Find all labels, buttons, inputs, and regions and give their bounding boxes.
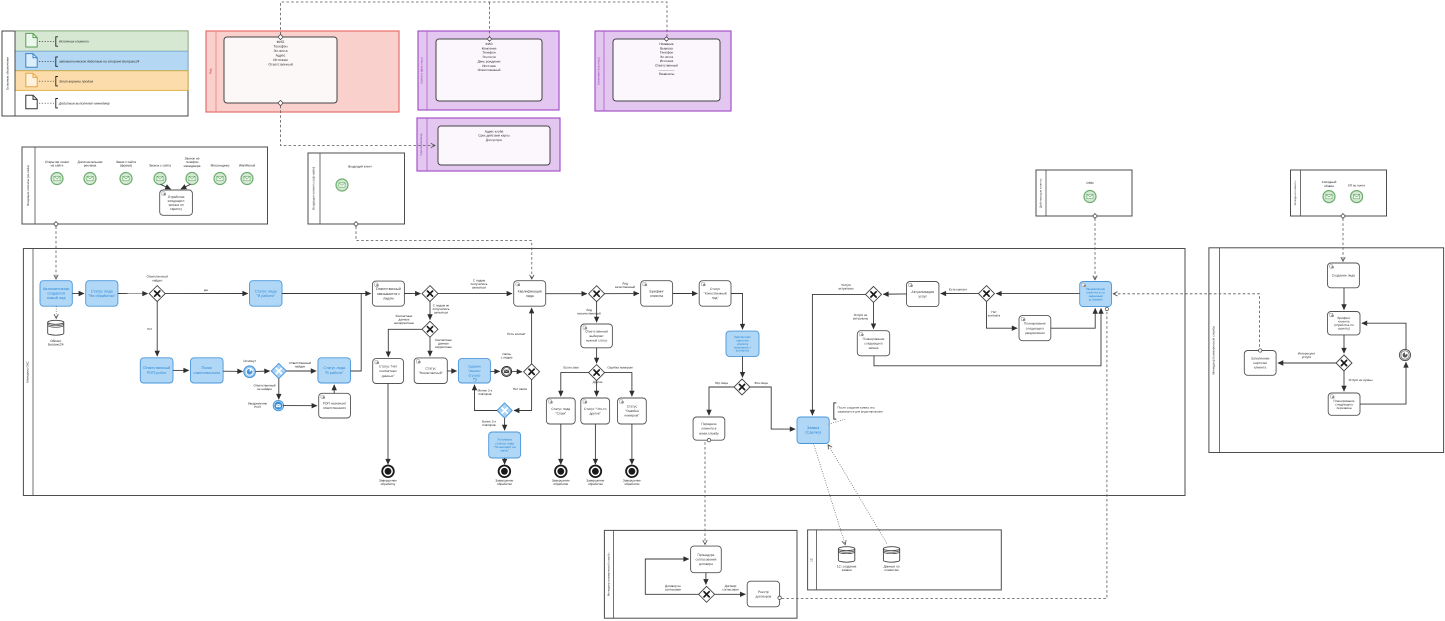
- svg-text:РОП назначаетответственного: РОП назначаетответственного: [323, 401, 347, 410]
- task: Поиск ответственного: [191, 358, 224, 383]
- wire: dashed Заполнение карточки -&gt; Уведомление клиента: [1114, 294, 1260, 347]
- task: Статус Нет контактных данных: [373, 359, 404, 384]
- legend row 4: Действие выполняет менеджер: [26, 95, 110, 109]
- svg-text:Есть контакт: Есть контакт: [507, 332, 526, 336]
- end event: Завершение обработки 3: [555, 466, 567, 478]
- start event: Звонок на телефон менеджера: [186, 173, 198, 185]
- wire: Установка статуса-&gt;конец: [504, 458, 506, 464]
- wire: G6-&gt;Статус В работе (2): [286, 370, 316, 372]
- wire: G11-&gt;Заявка Физ.лица: [750, 387, 795, 429]
- wire: Статус Что-то другое-&gt;конец: [594, 424, 596, 464]
- svg-text:Брифингклиента: Брифингклиента: [650, 289, 665, 298]
- svg-text:ОтветственныйРОП-робот: ОтветственныйРОП-робот: [143, 366, 170, 375]
- node: Действующие клиенты pool bottom diamond: [1093, 214, 1098, 219]
- task: Статус Неконтактный: [414, 358, 447, 384]
- svg-text:Компания (юр.лицо): Компания (юр.лицо): [597, 57, 601, 85]
- svg-text:Контакт (физ.лицо): Контакт (физ.лицо): [420, 57, 424, 84]
- svg-text:Действие выполняет менеджер: Действие выполняет менеджер: [58, 101, 110, 105]
- label: Звонок с сайта: [149, 164, 171, 168]
- svg-text:Физ.лица: Физ.лица: [754, 381, 768, 385]
- label: Нет связи: [513, 387, 527, 391]
- label: Дополнительная: [78, 160, 103, 168]
- node: Компания top connector diamond: [664, 37, 668, 41]
- end event: Завершение обработки 2: [499, 466, 511, 478]
- start event: Открытая линия на сайте: [51, 173, 63, 185]
- label: Услуги актуальны: [838, 283, 854, 291]
- label: Завершение обработки 2: [495, 478, 513, 486]
- task: Заполнение карточки клиента (компания + контакты): [726, 331, 759, 356]
- wire: dashed link Лид bottom to Сделка: [281, 106, 435, 146]
- timer event: 10 минут: [244, 366, 256, 378]
- svg-text:Задание"Звонок"(3 раза): Задание"Звонок"(3 раза): [468, 364, 482, 377]
- label: Физ.лица: [754, 381, 768, 385]
- wire: dotted Данные по клиентам -&gt; Заявка: [828, 445, 887, 544]
- svg-text:Холодные клиенты: Холодные клиенты: [1293, 181, 1297, 206]
- svg-text:Звонок нателефонменеджера: Звонок нателефонменеджера: [184, 157, 201, 168]
- wire: Ответственный связывается-&gt;G2: [404, 293, 420, 295]
- wire: РОП-робот-&gt;Поиск: [173, 369, 189, 371]
- end event: Завершение обработки 1: [382, 466, 394, 478]
- pool: Менеджер Коммерческой службы: [1209, 248, 1444, 453]
- legend row 1: Источник клиента: [26, 33, 89, 47]
- svg-text:Статус лида"В работе": Статус лида"В работе": [255, 289, 278, 298]
- svg-text:Завершениеобработки: Завершениеобработки: [586, 478, 604, 486]
- gateway: качество лида?: [589, 286, 605, 302]
- wire: Планирование уведомления-&gt;Уведомление клиента: [1051, 309, 1095, 329]
- wire: таймер-&gt;Брифинг loop: [1362, 323, 1406, 350]
- end event: Завершение обработки 5: [626, 466, 638, 478]
- svg-text:Договор несогласован: Договор несогласован: [665, 584, 682, 592]
- svg-text:DRM: DRM: [1086, 181, 1093, 185]
- label: Ошибка номером: [607, 365, 632, 369]
- wire: G5-&gt;Планирование уведомления Нет контакта: [987, 301, 1018, 328]
- svg-text:Услуги неактуальны: Услуги неактуальны: [853, 313, 869, 321]
- pool: Менеджер ОКС: [23, 249, 1185, 496]
- task: Брифинг клиента: [641, 281, 673, 307]
- wire: Звонок с сайта -&gt; Отработка: [161, 184, 171, 189]
- annotation: После создания заявка она закрывается для редактирования: [834, 403, 883, 419]
- svg-text:Юр.лица: Юр.лица: [715, 381, 728, 385]
- label: С лидом не получилось связаться: [433, 304, 450, 315]
- wire: dashed DRM -&gt; Уведомление клиента: [1094, 219, 1096, 280]
- label: Связь с лидом: [501, 352, 513, 360]
- timer event: перезвон: [1399, 349, 1410, 360]
- task: Актуализация услуг: [907, 282, 939, 307]
- svg-text:Нет связи: Нет связи: [513, 387, 527, 391]
- legend row 2: автоматическое действие на стороне Битрикс24: [26, 54, 140, 68]
- svg-text:Менеджер ОКС: Менеджер ОКС: [26, 360, 30, 382]
- wire: Заполнение карточки-&gt;G11: [742, 356, 744, 377]
- svg-text:Этап воронки продаж: Этап воронки продаж: [59, 79, 94, 83]
- wire: G7-&gt;Квалификация Есть контакт: [531, 308, 533, 364]
- svg-text:Да: Да: [204, 288, 208, 292]
- label: Завершение обработки 4: [586, 478, 604, 486]
- wire: G4-&gt;Планирование звонка Услуги не актуальны: [873, 302, 875, 329]
- legend row 3: Этап воронки продаж: [26, 73, 94, 87]
- svg-text:Входящие клиенты (он-лайн): Входящие клиенты (он-лайн): [26, 165, 30, 206]
- gateway: интересуют услуги?: [1336, 355, 1352, 371]
- label: Юр.лица: [715, 381, 728, 385]
- wire: dashed offline pool -&gt; Квалификация: [356, 227, 532, 279]
- svg-text:Если спам: Если спам: [563, 365, 578, 369]
- label: Услуги не нужны: [1349, 378, 1374, 382]
- task: Статус лида В работе (1): [250, 281, 283, 307]
- gateway: есть контакт после звонка?: [524, 364, 540, 380]
- pool: Входящие клиенты (оф-лайн): [308, 153, 405, 224]
- svg-text:Ошибка номером: Ошибка номером: [607, 365, 632, 369]
- task: Автоматически создается новый лид: [40, 281, 72, 307]
- database: 1С создание заявки: [837, 547, 857, 572]
- svg-text:Отработкавходящегозвонка поскр: Отработкавходящегозвонка поскрипту: [168, 195, 185, 211]
- gateway: договор согласован?: [699, 586, 715, 602]
- wire: G13-&gt;Реестр Договор согласован: [715, 593, 746, 595]
- start event: Звонок с сайта: [154, 173, 166, 185]
- wire: Статус Ошибка номером-&gt;конец: [631, 424, 633, 464]
- label: Контактные данные корректные: [435, 338, 452, 349]
- task: Заполнение карточки клиента (правый пул): [1244, 349, 1276, 376]
- wire: G11-&gt;Передача Юр.лица: [709, 387, 734, 415]
- start event: Входящий клент: [336, 179, 348, 191]
- label: DRM: [1086, 181, 1093, 185]
- wire: T1-&gt;T2: [72, 293, 84, 295]
- label: Более 3-х повторов: [482, 419, 497, 427]
- wire: Связь с лидом-&gt;G7: [512, 370, 522, 372]
- task: Заявка (Сделка): [797, 417, 829, 444]
- wire: dashed online pool -&gt; Автоматически создается: [55, 227, 57, 279]
- wire: dashed entity link Лид-Контакт-Компания top: [281, 2, 668, 37]
- wire: G3-&gt;Брифинг Лид качественный: [605, 293, 639, 295]
- task: Статус лида Спам: [546, 398, 575, 424]
- node: Холодные клиенты pool bottom diamond: [1341, 214, 1346, 219]
- database: Облако Битрикс24: [48, 320, 64, 346]
- node: Лид bottom connector diamond: [278, 100, 283, 105]
- svg-text:Другое: Другое: [593, 380, 603, 384]
- wire: Уведомление РОП-&gt;РОП назначает: [283, 405, 317, 407]
- node: online pool bottom diamond: [54, 222, 59, 227]
- task: Процедура согласования договора: [691, 546, 722, 573]
- wire: Статус Неконтактный-&gt;Задание Звонок: [447, 370, 456, 372]
- wire: Планирование перезвона-&gt;таймер: [1360, 362, 1406, 404]
- label: Ответственный не найден: [253, 384, 275, 392]
- wire: G7-&gt;G8 Нет связи: [514, 380, 532, 411]
- wire: G10-&gt;Статус Ошибка номером: [605, 373, 632, 397]
- message event: Связь с лидом: [502, 366, 512, 376]
- label: Менее 3-х повторов: [478, 389, 493, 397]
- label: Контактные данные некорректные: [394, 314, 414, 325]
- svg-text:Мессенджер: Мессенджер: [211, 164, 230, 168]
- gateway: есть контакт?: [979, 286, 995, 302]
- task: Установка статуса лида Не выходит на связь: [489, 432, 521, 458]
- wire: annotation association: [829, 419, 846, 424]
- svg-text:Завершениеобработки: Завершениеобработки: [552, 478, 570, 486]
- label: КП по почте: [1348, 184, 1365, 188]
- svg-text:Нет: Нет: [147, 327, 153, 331]
- task: Ответственный РОП-робот: [140, 358, 173, 383]
- pool: Входящие клиенты (он-лайн): [22, 147, 268, 224]
- task: Уведомление клиента в по заданным условиям: [1080, 282, 1112, 307]
- label: Другое: [593, 380, 603, 384]
- wire: Поиск-&gt;таймер: [223, 370, 243, 372]
- label: Завершение обработки 1: [379, 478, 397, 486]
- pool: Действующие клиенты: [1036, 170, 1132, 216]
- wire: G8-&gt;Установка статуса Более 3-х: [504, 418, 506, 430]
- svg-text:Звонок с сайта: Звонок с сайта: [149, 164, 171, 168]
- entity pool: Сделка(Заявка): [417, 118, 560, 171]
- gateway: число повторов?: [497, 403, 512, 418]
- svg-text:Сделка(Заявка): Сделка(Заявка): [419, 133, 423, 155]
- label: Звонок на: [184, 157, 201, 168]
- svg-text:Основные обозначения: Основные обозначения: [6, 57, 10, 90]
- wire: G10-&gt;Статус Спам: [561, 373, 589, 397]
- wire: G6-&gt;Уведомление РОП: [278, 379, 280, 400]
- wire: Звонок на телефон менеджера -&gt; Отработка: [181, 184, 191, 189]
- wire: Задание Звонок-&gt;Связь с лидом: [490, 370, 499, 372]
- wire: Создание лида-&gt;Брифинг: [1343, 288, 1345, 310]
- label: Есть контакт (квалификация): [507, 332, 526, 336]
- message event: Уведомление РОП: [273, 400, 283, 410]
- wire: G12-&gt;Заполнение карточки Интересуют услуги: [1278, 362, 1336, 364]
- svg-text:С лидом неполучилосьсвязаться: С лидом неполучилосьсвязаться: [433, 304, 450, 315]
- wire: Уведомление клиента-&gt;G5: [996, 293, 1079, 295]
- wire: T3-&gt;Ответственный связывается: [282, 293, 371, 295]
- wire: G9-&gt;Статус Неконтактный: [429, 337, 431, 356]
- task: Статус Ошибка номером: [618, 398, 647, 424]
- task: Брифинг клиента (отработка по скрипту): [1328, 312, 1361, 335]
- task: Планирование следующего перезвона: [1328, 393, 1360, 415]
- wire: Статус Нет контактных данных-&gt;конец: [387, 384, 389, 465]
- wire: G5-&gt;Актуализация Есть контакт: [941, 293, 979, 295]
- gateway: ответственный найден после поиска?: [271, 363, 286, 378]
- label: Мессенджер: [211, 164, 230, 168]
- database: Данные по клиентам: [883, 547, 899, 572]
- pool: 1С: [808, 530, 1002, 590]
- wire: G4-&gt;Заявка Услуги актуальны: [812, 294, 865, 415]
- svg-text:Входящие клиенты (оф-лайн): Входящие клиенты (оф-лайн): [311, 167, 315, 210]
- svg-text:Завершениеобработку: Завершениеобработку: [379, 478, 397, 486]
- task: Создание лида: [1328, 263, 1360, 288]
- node: Контакт top connector diamond: [487, 37, 491, 41]
- svg-text:Менеджер Коммерческой службы: Менеджер Коммерческой службы: [1212, 325, 1216, 374]
- label: Входящий клент: [348, 165, 372, 169]
- label: Нет: [147, 327, 153, 331]
- wire: Статус Спам-&gt;конец: [560, 424, 562, 464]
- svg-text:КП по почте: КП по почте: [1348, 184, 1365, 188]
- svg-text:Связьс лидом: Связьс лидом: [501, 352, 513, 360]
- wire: G2-&gt;Квалификация: [438, 293, 512, 295]
- svg-text:Статус лида"Не обработан": Статус лида"Не обработан": [88, 289, 116, 298]
- svg-text:Передачаклиента вкомм.службу: Передачаклиента вкомм.службу: [699, 422, 719, 435]
- task: Планирование следующего звонка: [857, 331, 889, 356]
- label: Услуги не актуальны: [853, 313, 869, 321]
- label: Интересуют услуги: [1298, 352, 1316, 360]
- label: Уведомление РОП: [248, 402, 268, 410]
- wire: G1-&gt;РОП-робот Нет: [156, 301, 158, 356]
- svg-text:WantResult: WantResult: [239, 164, 255, 168]
- start event: DRM: [1084, 191, 1096, 203]
- svg-text:Менее 3-хповторов: Менее 3-хповторов: [478, 389, 493, 397]
- entity pool: Компания (юр.лицо): [595, 31, 731, 111]
- wire: dotted Автоматически создается -&gt; Облако Битрикс24: [55, 306, 57, 318]
- label: Договор согласован: [722, 584, 739, 592]
- label: Завершение обработки 5: [623, 478, 641, 486]
- end event: Завершение обработки 4: [590, 466, 602, 478]
- pool: Менеджер коммерческой службы (договор): [604, 530, 797, 618]
- legend: Основные обозначения box: [2, 31, 188, 116]
- label: Да: [204, 288, 208, 292]
- task: Ответственный связывается с лидом: [372, 281, 404, 306]
- wire: G8-&gt;Задание Звонок Менее 3-х: [475, 385, 498, 411]
- gateway: юр или физ лицо?: [734, 379, 750, 395]
- wire: Процедура-&gt;G13: [705, 573, 707, 585]
- pool: Холодные клиенты: [1291, 170, 1387, 216]
- wire: G3-&gt;Ответственный выбирает Лид некачественный: [596, 302, 598, 323]
- svg-text:Завершениеобработки: Завершениеобработки: [623, 478, 641, 486]
- task: Статус Качественный лид: [699, 281, 731, 307]
- wire: dashed Холодные -&gt; Создание лида: [1342, 219, 1344, 262]
- task: Отработка входящего звонка по скрипту: [160, 190, 193, 215]
- label: Ответственный найден: [146, 275, 168, 283]
- svg-text:Статус лида"В работе": Статус лида"В работе": [323, 366, 346, 375]
- wire: G10-&gt;Статус Что-то другое: [596, 381, 598, 397]
- label: Заказ с сайта: [116, 160, 136, 168]
- wire: Планирование звонка-&gt;Уведомление клиента loop: [874, 309, 1101, 366]
- entity pool: Лид: [206, 31, 399, 112]
- wire: Ответственный выбирает-&gt;G10: [596, 348, 598, 363]
- wire: dashed Реестр договоров -&gt; Уведомление клиента: [782, 307, 1109, 598]
- gateway: связь с лидом?: [422, 286, 438, 302]
- label: Лид качественный: [615, 282, 635, 290]
- svg-text:Создание лида: Создание лида: [1332, 274, 1355, 278]
- svg-text:Есть контакт: Есть контакт: [949, 287, 968, 291]
- wire: T2-&gt;G1: [118, 293, 148, 295]
- start event: Мессенджер: [214, 173, 226, 185]
- task: Ответственный выбирает нужный статус: [581, 324, 613, 348]
- start event: КП по почте: [1351, 191, 1363, 203]
- label: Есть контакт (актуализация): [949, 287, 968, 291]
- wire: dashed Передача клиента -&gt; Процедура согласования: [704, 442, 706, 544]
- label: Если спам: [563, 365, 578, 369]
- task: Задание Звонок (3 раза): [458, 359, 490, 383]
- wire: Квалификация-&gt;G3: [546, 293, 587, 295]
- task: Планирование следующего уведомления: [1019, 316, 1051, 341]
- label: С лидом получилось связаться: [471, 279, 488, 290]
- gateway: Ответственный найден?: [149, 286, 165, 302]
- svg-text:Лид: Лид: [208, 68, 212, 74]
- wire: РОП назначает-&gt;Статус В работе (2): [333, 385, 335, 393]
- task: Реестр договоров: [747, 581, 781, 607]
- gateway: выбор статуса: [589, 365, 605, 381]
- wire: Статус Качественный лид-&gt;Заполнение карточки: [731, 294, 743, 330]
- svg-text:Менеджер коммерческой службы: Менеджер коммерческой службы: [606, 553, 610, 597]
- wire: таймер-&gt;G6: [256, 370, 270, 372]
- start event: Заказ с сайта (форма): [120, 173, 132, 185]
- label: WantResult: [239, 164, 255, 168]
- wire: G9-&gt;Статус Нет контактных данных: [388, 329, 422, 357]
- gateway: корректность контактных данных?: [422, 321, 438, 337]
- wire: dotted Заявка -&gt; 1С создание заявки: [814, 444, 846, 545]
- wire: G13-&gt;Процедура loop Договор не согласован: [645, 559, 699, 594]
- wire: G2-&gt;G9: [429, 302, 431, 320]
- task: Статус лида Не обработан: [86, 281, 118, 307]
- wire: Статус В работе (2)-&gt;main line: [351, 294, 362, 372]
- wire: G12-&gt;Планирование перезвона Услуги не нужны: [1343, 371, 1345, 391]
- task: Передача клиента в комм.службу: [693, 417, 725, 442]
- svg-text:Данные поклиентам: Данные поклиентам: [884, 565, 900, 573]
- svg-text:Действующие клиенты: Действующие клиенты: [1038, 178, 1042, 208]
- svg-text:Планированиеследующегоуведомле: Планированиеследующегоуведомления: [1024, 322, 1046, 335]
- svg-text:Завершениеобработки: Завершениеобработки: [495, 478, 513, 486]
- svg-text:Услуги не нужны: Услуги не нужны: [1349, 378, 1374, 382]
- svg-text:Заявка(Сделка): Заявка(Сделка): [805, 426, 821, 435]
- label: Ответственный найден (2): [289, 361, 311, 369]
- label: Нет контакта: [988, 310, 1001, 318]
- task: Статус Что-то другое: [581, 398, 610, 424]
- svg-text:Источник клиента: Источник клиента: [59, 40, 89, 44]
- start event: WantResult: [241, 173, 253, 185]
- label: Холодный обзвон: [1322, 180, 1337, 188]
- label: Открытая линия: [45, 160, 69, 168]
- wire: Актуализация-&gt;G4: [883, 293, 906, 295]
- label: Договор не согласован: [665, 584, 682, 592]
- svg-text:10 минут: 10 минут: [243, 359, 256, 363]
- wire: Брифинг-&gt;G12: [1343, 335, 1345, 353]
- wire: Брифинг-&gt;Статус Качественный лид: [673, 293, 698, 295]
- start event: Холодный обзвон: [1323, 191, 1335, 203]
- wire: G1-&gt;T3 Да: [165, 293, 248, 295]
- task: Квалификация лида: [514, 281, 546, 307]
- label: 10 минут: [243, 359, 256, 363]
- svg-text:Входящий клент: Входящий клент: [348, 165, 372, 169]
- task: РОП назначает ответственного: [319, 393, 351, 418]
- node: offline pool bottom diamond: [354, 222, 359, 227]
- svg-text:Более 3-хповторов: Более 3-хповторов: [482, 419, 497, 427]
- gateway: услуги актуальны?: [866, 286, 882, 302]
- entity pool: Контакт (физ.лицо): [418, 31, 559, 110]
- node: Лид top connector diamond: [278, 34, 283, 39]
- label: Лид некачественный: [577, 308, 601, 316]
- start event: Дополнительная реклама: [84, 173, 96, 185]
- svg-text:автоматическое действие на сто: автоматическое действие на стороне Битри…: [59, 60, 140, 64]
- label: Завершение обработки 3: [552, 478, 570, 486]
- task: Статус лида В работе (2): [318, 358, 351, 383]
